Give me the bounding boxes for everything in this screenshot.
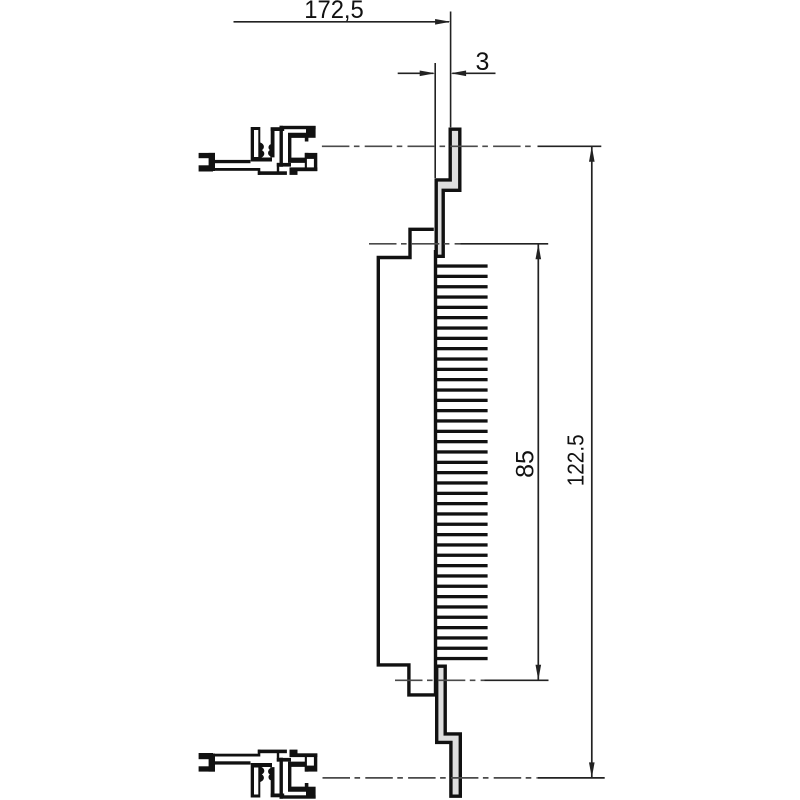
top flange (grey Z-bracket) bbox=[436, 129, 460, 256]
bottom rail profile (mirrored) bbox=[199, 750, 318, 799]
centerline bottom rail (dash-dot) bbox=[323, 777, 538, 779]
bottom flange (grey Z-bracket) bbox=[437, 666, 461, 796]
122.5 extension bottom bbox=[537, 777, 604, 779]
85 extension bottom bbox=[485, 679, 549, 681]
svg-text:3: 3 bbox=[476, 48, 490, 76]
top rail profile bbox=[199, 126, 318, 175]
connector right edge bbox=[434, 250, 437, 695]
centerline 85 bottom (dash-dot) bbox=[395, 679, 485, 681]
dimension 172,5 line bbox=[234, 21, 450, 23]
centerline 85 top (dash-dot) bbox=[369, 243, 461, 245]
122.5 extension top bbox=[538, 145, 602, 147]
dimension 85 bbox=[537, 245, 539, 680]
dimension 3 left arrow bbox=[398, 72, 434, 74]
dimension 3 right arrow bbox=[452, 72, 495, 74]
connector pins bbox=[435, 264, 488, 660]
svg-text:172,5: 172,5 bbox=[304, 0, 364, 24]
extension line left for 3 bbox=[434, 63, 436, 178]
centerline top rail (dash-dot) bbox=[322, 145, 534, 147]
svg-text:85: 85 bbox=[512, 450, 540, 478]
connector body outline bbox=[378, 229, 436, 695]
dimension 122.5 bbox=[591, 147, 593, 777]
85 extension top bbox=[461, 243, 549, 245]
extension line right of 172,5 bbox=[450, 12, 452, 128]
svg-text:122.5: 122.5 bbox=[562, 434, 588, 486]
